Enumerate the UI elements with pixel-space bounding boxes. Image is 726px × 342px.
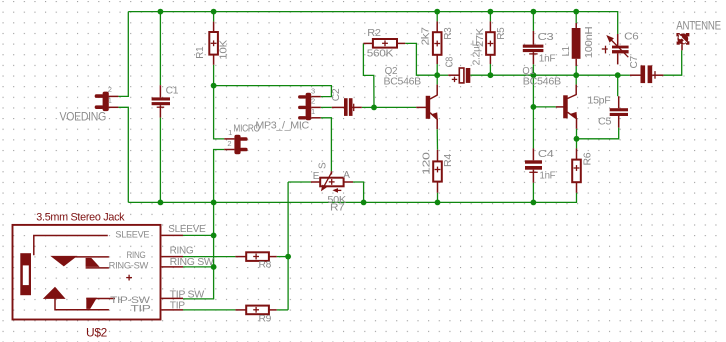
wire MICRO pin2 to jack ground column — [183, 150, 224, 299]
svg-text:1: 1 — [108, 96, 112, 105]
junction top rail at C1 — [158, 9, 164, 15]
svg-text:3: 3 — [311, 86, 315, 95]
wire L1 node to C6 node — [576, 74, 618, 76]
svg-text:S: S — [318, 162, 329, 169]
jack ring contact triangle — [50, 256, 77, 267]
wire C3 node down to Q1 base node — [532, 75, 534, 107]
svg-text:R4: R4 — [442, 154, 454, 167]
wire C4 bottom to ground — [532, 183, 534, 203]
wire C8 right to R5 node — [470, 74, 490, 76]
wire MP3 pin1 to R7 S — [321, 118, 332, 171]
jack tip-sw contact — [86, 298, 97, 309]
svg-text:R5: R5 — [495, 27, 507, 40]
wire L1 bottom — [575, 66, 577, 75]
svg-text:SLEEVE: SLEEVE — [115, 229, 149, 239]
svg-text:R2: R2 — [367, 27, 381, 39]
svg-text:SLEEVE: SLEEVE — [168, 224, 206, 235]
svg-text:RING: RING — [127, 250, 146, 260]
capacitor C8 — [448, 68, 470, 83]
jack ring line — [75, 256, 109, 258]
jack ring-sw line — [86, 267, 109, 269]
svg-text:R7: R7 — [330, 202, 345, 214]
capacitor C1 — [152, 85, 170, 117]
svg-text:ANTENNE: ANTENNE — [676, 21, 721, 33]
junction sleeve row — [211, 233, 217, 239]
junction ring-sw row — [211, 264, 217, 270]
capacitor C3 — [523, 31, 544, 64]
junction top rail at C3 — [531, 9, 537, 15]
connector MICRO — [224, 135, 247, 155]
svg-text:C5: C5 — [598, 115, 612, 127]
wire ring row to R8 — [183, 256, 235, 258]
svg-text:BC546B: BC546B — [384, 75, 422, 87]
wire emitter node to R6 — [576, 139, 578, 149]
svg-text:15pF: 15pF — [588, 95, 611, 107]
svg-text:C4: C4 — [538, 148, 554, 160]
svg-text:560K: 560K — [367, 47, 394, 59]
svg-text:RING-SW: RING-SW — [109, 261, 149, 271]
svg-text:C3: C3 — [538, 31, 554, 43]
junction Q2 collector node — [434, 72, 440, 78]
svg-text:R6: R6 — [582, 152, 594, 165]
resistor R2 — [363, 39, 405, 48]
svg-text:R9: R9 — [259, 313, 272, 323]
junction top rail at L1 — [573, 9, 579, 15]
jack tip-sw line — [86, 298, 115, 300]
wire base node to Q1 base — [533, 106, 556, 108]
wire base node to Q2 base — [374, 106, 416, 108]
svg-text:2.2µF: 2.2µF — [470, 40, 482, 65]
junction ground at R4 — [435, 200, 441, 206]
jack pin stub RING — [162, 256, 184, 258]
wire top supply rail — [128, 12, 617, 34]
wire tip row to R9 — [183, 309, 235, 311]
wire Q2 emitter to R4 — [436, 129, 438, 150]
svg-text:C2: C2 — [330, 88, 342, 101]
svg-text:BC546B: BC546B — [523, 76, 561, 88]
resistor R6 — [572, 148, 581, 192]
trimmer capacitor C6 — [602, 34, 629, 64]
svg-text:2k7: 2k7 — [420, 27, 432, 46]
svg-text:VOEDING: VOEDING — [60, 111, 107, 123]
wire C6 node down to C5 top — [617, 75, 619, 96]
wire C2 right to base node — [362, 106, 374, 108]
inductor L1 — [572, 23, 581, 66]
wire C3 node to L1 node — [533, 74, 576, 76]
junction R8 right node — [285, 254, 291, 260]
jack ring-sw contact — [86, 258, 100, 267]
connector VOEDING — [95, 92, 119, 112]
junction ground at C1 — [158, 200, 164, 206]
resistor R4 — [433, 150, 442, 203]
svg-text:E: E — [313, 171, 320, 182]
junction top rail at R3 — [434, 9, 440, 15]
wire L1 top — [575, 12, 577, 23]
capacitor C7 — [630, 65, 664, 83]
wire C1 bottom — [159, 118, 161, 203]
wire R9 right up — [277, 309, 288, 311]
wire VOEDING pin1 to ground rail — [118, 107, 128, 202]
jack pin stub SLEEVE — [162, 234, 184, 236]
wire C7 right to antenna — [663, 50, 681, 75]
jack pin stub RING-SW — [162, 266, 184, 268]
svg-text:1nF: 1nF — [539, 52, 555, 64]
svg-text:2: 2 — [227, 139, 231, 148]
wire emitter node to C5 bottom — [577, 128, 619, 139]
junction L1 bottom node — [573, 72, 579, 78]
jack U$2 box — [13, 225, 161, 320]
junction C6 bottom node — [615, 72, 621, 78]
capacitor C2 — [332, 98, 362, 116]
svg-text:R3: R3 — [442, 27, 454, 40]
jack plus mark — [126, 277, 132, 279]
junction Q1 base node — [531, 104, 537, 110]
svg-text:10K: 10K — [218, 40, 230, 60]
svg-text:C6: C6 — [624, 30, 639, 42]
svg-text:1: 1 — [228, 128, 232, 137]
connector MP3 — [298, 93, 321, 121]
wire R2 right to collector node — [405, 43, 437, 75]
wire R3 top — [436, 12, 438, 22]
svg-text:3.5mm Stereo Jack: 3.5mm Stereo Jack — [36, 212, 125, 224]
resistor R5 — [486, 21, 495, 64]
wire C1 top — [159, 12, 161, 86]
svg-text:2: 2 — [108, 85, 112, 94]
junction ground at jack column — [211, 200, 217, 206]
wire collector node to C8 — [437, 74, 448, 76]
resistor R9 — [235, 306, 276, 315]
jack sleeve barrel — [20, 253, 31, 295]
svg-text:C7: C7 — [628, 56, 640, 69]
junction top rail at R1 — [211, 9, 217, 15]
svg-text:C8: C8 — [443, 57, 455, 68]
svg-text:TIP: TIP — [131, 304, 151, 314]
svg-text:A: A — [343, 170, 350, 181]
potentiometer R7 — [311, 171, 353, 193]
wire C6 node to C7 — [618, 74, 630, 76]
svg-text:120: 120 — [421, 152, 433, 175]
svg-text:2: 2 — [311, 97, 315, 106]
wire R5 bottom — [489, 64, 491, 75]
wire base node down to C4 — [532, 107, 534, 148]
wire node A to MP3 pin3 — [214, 86, 332, 97]
wire sleeve row — [183, 234, 214, 236]
wire R7-E column down to R8/R9 node — [287, 182, 289, 310]
junction ground at C4 — [531, 200, 537, 206]
transistor Q2 — [416, 85, 438, 130]
junction R5 bottom node — [488, 72, 494, 78]
wire C3 top — [532, 12, 534, 31]
capacitor C5 — [610, 96, 628, 127]
svg-text:1nF: 1nF — [540, 170, 556, 182]
junction Q2 base node — [371, 105, 377, 111]
jack tip line — [55, 298, 109, 310]
junction ground at R7 A — [361, 200, 367, 206]
wire MP3 pin2 to C2 — [321, 106, 332, 108]
jack pin stub TIP — [162, 309, 184, 311]
capacitor C4 — [525, 148, 542, 182]
wire VOEDING pin2 to top rail — [118, 12, 128, 97]
wire Q1 collector — [575, 75, 577, 84]
svg-text:C1: C1 — [166, 84, 179, 96]
wire Q1 emitter to node — [576, 129, 578, 139]
wire R2 left to base node — [363, 43, 374, 107]
jack tip contact triangle — [43, 287, 66, 299]
junction top rail at R5 — [488, 9, 494, 15]
resistor R1 — [209, 22, 218, 65]
wire R5 node to C3 node — [490, 74, 533, 76]
svg-text:U$2: U$2 — [86, 325, 108, 339]
svg-text:1: 1 — [311, 107, 315, 116]
wire R1 top — [213, 12, 215, 22]
wire node A down to MICRO pin1 — [214, 86, 225, 139]
wire R7 A to ground rail — [353, 182, 364, 202]
wire R1 bottom to node — [213, 65, 215, 86]
wire R7 E — [288, 181, 311, 183]
svg-text:MP3_/_MIC: MP3_/_MIC — [255, 120, 309, 131]
wire R3 bottom — [436, 64, 438, 75]
wire ground rail — [128, 193, 576, 203]
resistor R3 — [433, 21, 442, 64]
antenna ANTENNE — [676, 33, 689, 50]
wire R8 right to node — [277, 256, 288, 258]
wire ring-sw row — [183, 266, 214, 268]
svg-text:100nH: 100nH — [583, 27, 595, 59]
junction Q1 emitter node — [574, 136, 580, 142]
junction node A — [211, 83, 217, 89]
wire Q2 collector — [436, 75, 438, 84]
svg-text:RING: RING — [170, 246, 194, 257]
jack sleeve bracket — [34, 236, 108, 256]
wire R5 top — [489, 12, 491, 22]
junction C3 bottom node — [531, 72, 537, 78]
svg-text:R8: R8 — [259, 260, 272, 270]
wire C3 bottom — [532, 64, 534, 75]
jack pin stub TIP-SW — [162, 297, 184, 299]
resistor R8 — [235, 252, 276, 261]
transistor Q1 — [556, 85, 577, 129]
svg-text:L1: L1 — [560, 46, 572, 56]
svg-text:R1: R1 — [194, 46, 206, 58]
